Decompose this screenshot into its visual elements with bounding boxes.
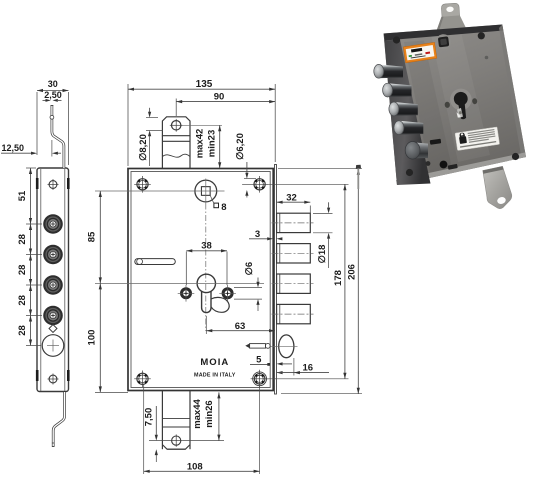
- dimension diameter 8,20: [146, 108, 163, 166]
- photo corner screw top-left: [393, 36, 400, 43]
- spring pin: [245, 343, 270, 348]
- photo body top edge band: [384, 25, 504, 41]
- side view deadbolt pin 2: [43, 245, 63, 265]
- side view top rod: [50, 105, 64, 168]
- dimension 63: [206, 316, 275, 334]
- bolt 4: [272, 304, 314, 323]
- dimension 28 b: [29, 255, 32, 286]
- side view latch circle: [42, 335, 64, 357]
- svg-text:85: 85: [87, 231, 98, 242]
- follower square spindle: [95, 179, 225, 332]
- side view diamond detent: [49, 325, 57, 333]
- dimension 28 d: [29, 316, 32, 346]
- dimension 100: [95, 283, 128, 392]
- bottom tab screw: [170, 434, 182, 446]
- svg-text:∅6: ∅6: [244, 262, 255, 276]
- svg-text:MADE IN ITALY: MADE IN ITALY: [194, 373, 236, 379]
- photo corner screw bottom-right: [512, 153, 519, 160]
- dimension 51: [29, 168, 32, 224]
- dimension 206: [278, 169, 362, 394]
- dimension 30: [37, 89, 69, 165]
- svg-text:135: 135: [196, 79, 213, 90]
- svg-text:28: 28: [17, 265, 28, 276]
- corner screw bottom-right: [251, 370, 269, 388]
- side view deadbolt pin 3: [43, 275, 63, 295]
- photo follower square hole: [435, 33, 452, 50]
- photo body right bevel: [499, 25, 526, 159]
- corner screw bottom-left: [134, 371, 151, 388]
- dimension 28 c: [29, 285, 32, 316]
- dimension 28 a: [29, 224, 32, 255]
- svg-text:90: 90: [214, 92, 225, 103]
- dimension diameter 6,20: [244, 162, 256, 198]
- svg-text:38: 38: [201, 241, 212, 252]
- corner screw top-right: [242, 176, 268, 193]
- photo latch cylinder: [405, 142, 428, 160]
- photo small face dot: [485, 56, 489, 60]
- svg-text:32: 32: [286, 193, 297, 204]
- photo corner screw bottom-left: [406, 169, 413, 176]
- svg-text:16: 16: [303, 363, 314, 374]
- svg-text:min23: min23: [207, 130, 218, 157]
- photo euro cylinder keyhole: [449, 87, 475, 120]
- svg-text:min26: min26: [204, 400, 215, 427]
- photo bottom face slot: [448, 164, 458, 170]
- photo small screw near port: [426, 161, 431, 166]
- svg-text:100: 100: [87, 330, 98, 346]
- photo bolt 4: [394, 121, 423, 135]
- svg-text:28: 28: [17, 295, 28, 306]
- photo side face slot: [430, 139, 442, 145]
- side view edge pads: [36, 178, 70, 381]
- dimension 38: [186, 249, 227, 285]
- svg-text:max44: max44: [192, 398, 203, 428]
- svg-text:206: 206: [346, 264, 357, 280]
- side view top screw: [48, 179, 59, 190]
- svg-text:∅8,20: ∅8,20: [138, 134, 149, 161]
- svg-text:∅6,20: ∅6,20: [235, 133, 246, 160]
- bottom tab: [162, 391, 190, 449]
- faceplate edge: [275, 165, 277, 395]
- svg-text:∅18: ∅18: [317, 245, 328, 264]
- side view left dimension chain extension lines: [26, 168, 42, 346]
- svg-text:2,50: 2,50: [44, 90, 62, 100]
- svg-text:178: 178: [333, 270, 344, 286]
- svg-text:28: 28: [17, 325, 28, 336]
- corner screw top-left: [134, 176, 151, 193]
- svg-text:7,50: 7,50: [144, 408, 155, 427]
- side view deadbolt pin 4: [43, 306, 63, 326]
- side view deadbolt pin 1: [43, 214, 63, 234]
- dimension 32: [277, 201, 311, 213]
- bolt 1: [272, 213, 314, 232]
- photo face sheen: [430, 28, 490, 163]
- side view bottom rod: [52, 392, 65, 447]
- photo bolt 2: [383, 83, 412, 97]
- photo body bottom edge band: [396, 153, 526, 186]
- dimension 90: [176, 99, 275, 117]
- side view faceplate body: [37, 168, 69, 392]
- dimension diameter 18: [313, 202, 333, 268]
- euro cylinder profile: [95, 274, 264, 312]
- side view bottom screw: [48, 374, 59, 385]
- dimension 85: [99, 191, 102, 283]
- photo loose pin: [356, 165, 361, 189]
- svg-text:63: 63: [235, 321, 246, 332]
- photo bolt 3: [389, 102, 418, 116]
- latch oval: [270, 335, 298, 358]
- photo bottom mounting bracket: [483, 166, 512, 208]
- svg-text:108: 108: [187, 462, 203, 473]
- dimension 7,50: [149, 406, 170, 462]
- dimension 178: [266, 184, 349, 378]
- dimension max42 min23: [218, 125, 221, 168]
- photo cylinder side holes: [444, 101, 450, 108]
- cylinder screw right: [219, 285, 236, 302]
- svg-text:5: 5: [256, 354, 262, 365]
- photo bolt 1: [374, 64, 403, 78]
- svg-text:51: 51: [17, 190, 28, 201]
- main body case: [128, 169, 273, 391]
- photo body left side face: [384, 34, 431, 186]
- svg-text:30: 30: [48, 79, 58, 89]
- dimension max44 min26: [182, 392, 224, 440]
- photo top mounting bracket: [437, 3, 466, 30]
- svg-text:28: 28: [17, 234, 28, 245]
- photo orange label: [403, 42, 437, 62]
- bolt 2: [272, 244, 314, 263]
- bolt 3: [272, 274, 314, 293]
- left slot: [135, 259, 176, 265]
- photo white label: [455, 127, 500, 151]
- photo small black port: [440, 161, 448, 169]
- cylinder screw left: [178, 285, 195, 302]
- svg-text:12,50: 12,50: [2, 143, 25, 153]
- dimension 135: [128, 84, 275, 166]
- label square 8: [210, 195, 226, 213]
- svg-text:max42: max42: [195, 129, 206, 159]
- dimension 108: [144, 385, 260, 475]
- dimension diameter 6: [234, 278, 262, 312]
- svg-text:8: 8: [221, 202, 226, 213]
- top rod bar: [162, 117, 190, 169]
- photo corner screw top-right: [478, 32, 485, 39]
- top rod screw hole: [170, 119, 222, 132]
- svg-text:MOIA: MOIA: [200, 357, 229, 368]
- photo lock body silhouette: [384, 25, 526, 186]
